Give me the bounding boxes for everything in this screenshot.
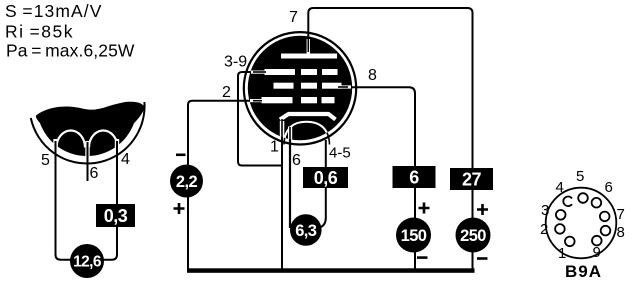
wire cores inside channels <box>307 36 309 52</box>
wire g1 pin 2 to battery <box>188 101 258 269</box>
wire screen pin 8 to box 6 <box>340 87 415 270</box>
white channel pin 4 lead <box>115 139 119 149</box>
B9A pin 7 hole <box>600 212 610 222</box>
B9A pin 6 hole <box>592 198 602 208</box>
svg-text:2,2: 2,2 <box>176 173 198 191</box>
grid row g2 dashes <box>274 83 294 89</box>
svg-text:6: 6 <box>90 165 99 182</box>
current box 0,6 <box>303 167 348 188</box>
plus below 2,2 <box>174 203 185 214</box>
B9A pin 4 hole <box>563 197 572 207</box>
svg-text:5: 5 <box>576 168 584 185</box>
minus above 2,2 <box>176 154 186 157</box>
wire heater pin 6 down <box>289 127 291 228</box>
svg-text:S =13mA/V: S =13mA/V <box>5 1 103 21</box>
wire anode pin 7 top <box>308 8 472 270</box>
svg-text:7: 7 <box>617 206 625 223</box>
minus below 250 <box>477 257 488 260</box>
pin 7 white channel <box>307 39 310 55</box>
B9A pin 1 hole <box>565 237 575 247</box>
heater filament hump left <box>57 131 86 148</box>
grid row g3 dashes <box>250 69 351 103</box>
svg-text:12,6: 12,6 <box>73 254 102 271</box>
svg-text:150: 150 <box>401 227 427 245</box>
plus above 250 <box>477 204 488 215</box>
pin 6 white channel <box>288 127 292 141</box>
B9A pin 8 hole <box>601 226 611 236</box>
B9A pin 5 hole <box>578 193 588 203</box>
svg-text:2: 2 <box>540 221 548 238</box>
beam plate chevron <box>280 114 336 120</box>
anode bar <box>281 54 337 59</box>
svg-text:3-9: 3-9 <box>224 54 247 71</box>
svg-text:4: 4 <box>121 151 130 168</box>
svg-text:6: 6 <box>605 179 613 196</box>
heater voltage circle 6,3 <box>290 214 322 246</box>
pin 6 stub <box>87 142 89 181</box>
B9A base outline <box>546 188 617 259</box>
white channel pin 6 lead <box>85 141 89 158</box>
wire heater pins 4-5 down <box>320 140 326 228</box>
svg-text:6: 6 <box>409 168 419 188</box>
voltage circle 12,6 <box>70 244 104 278</box>
heater filament hump right <box>89 131 118 148</box>
ground bus <box>187 268 475 273</box>
svg-text:1: 1 <box>558 245 566 262</box>
svg-text:7: 7 <box>289 9 298 26</box>
svg-text:0,6: 0,6 <box>314 168 338 188</box>
svg-text:0,3: 0,3 <box>104 206 128 226</box>
B9A pin 2 hole <box>555 224 565 234</box>
plus above 150 <box>419 203 430 214</box>
svg-text:4-5: 4-5 <box>329 145 351 162</box>
svg-text:27: 27 <box>462 170 482 190</box>
tube envelope circle <box>244 32 356 144</box>
battery circle 2,2 <box>170 165 203 198</box>
cathode dome black part <box>284 122 330 145</box>
grid row g1 dashes <box>250 99 264 102</box>
svg-text:9: 9 <box>593 244 601 261</box>
heater symbol black band <box>36 102 145 156</box>
svg-text:2: 2 <box>222 84 231 101</box>
B9A pin 3 hole <box>556 210 566 220</box>
svg-text:6,3: 6,3 <box>295 222 317 240</box>
svg-text:1: 1 <box>270 139 279 156</box>
heater symbol outer arc <box>31 102 145 164</box>
svg-text:8: 8 <box>617 224 625 241</box>
current box 0,3 <box>96 204 135 227</box>
white channel pin 5 lead <box>53 139 57 147</box>
svg-text:8: 8 <box>368 67 377 84</box>
B9A pin 9 hole <box>592 236 602 246</box>
wire cathode pin 1 down <box>281 119 283 270</box>
wire pin 4 down <box>104 141 118 260</box>
cathode dome white part <box>284 122 330 145</box>
svg-text:3: 3 <box>541 202 549 219</box>
voltage circle 250 <box>456 218 491 253</box>
svg-text:4: 4 <box>556 179 564 196</box>
voltage circle 150 <box>396 218 431 253</box>
pin 1 white channel <box>280 121 285 138</box>
wire pin 5 down <box>56 141 71 260</box>
svg-text:6: 6 <box>292 152 301 169</box>
svg-text:250: 250 <box>460 227 486 245</box>
minus below 150 <box>417 256 428 259</box>
current box 6 <box>393 166 436 188</box>
svg-text:Pa = max.6,25W: Pa = max.6,25W <box>6 41 135 61</box>
tube interior disk <box>248 36 352 140</box>
svg-text:5: 5 <box>41 152 50 169</box>
current box 27 <box>450 168 493 190</box>
svg-text:Ri =85k: Ri =85k <box>5 22 74 42</box>
wire g3 pins 3-9 to cathode <box>238 72 282 166</box>
svg-text:B9A: B9A <box>565 262 602 281</box>
